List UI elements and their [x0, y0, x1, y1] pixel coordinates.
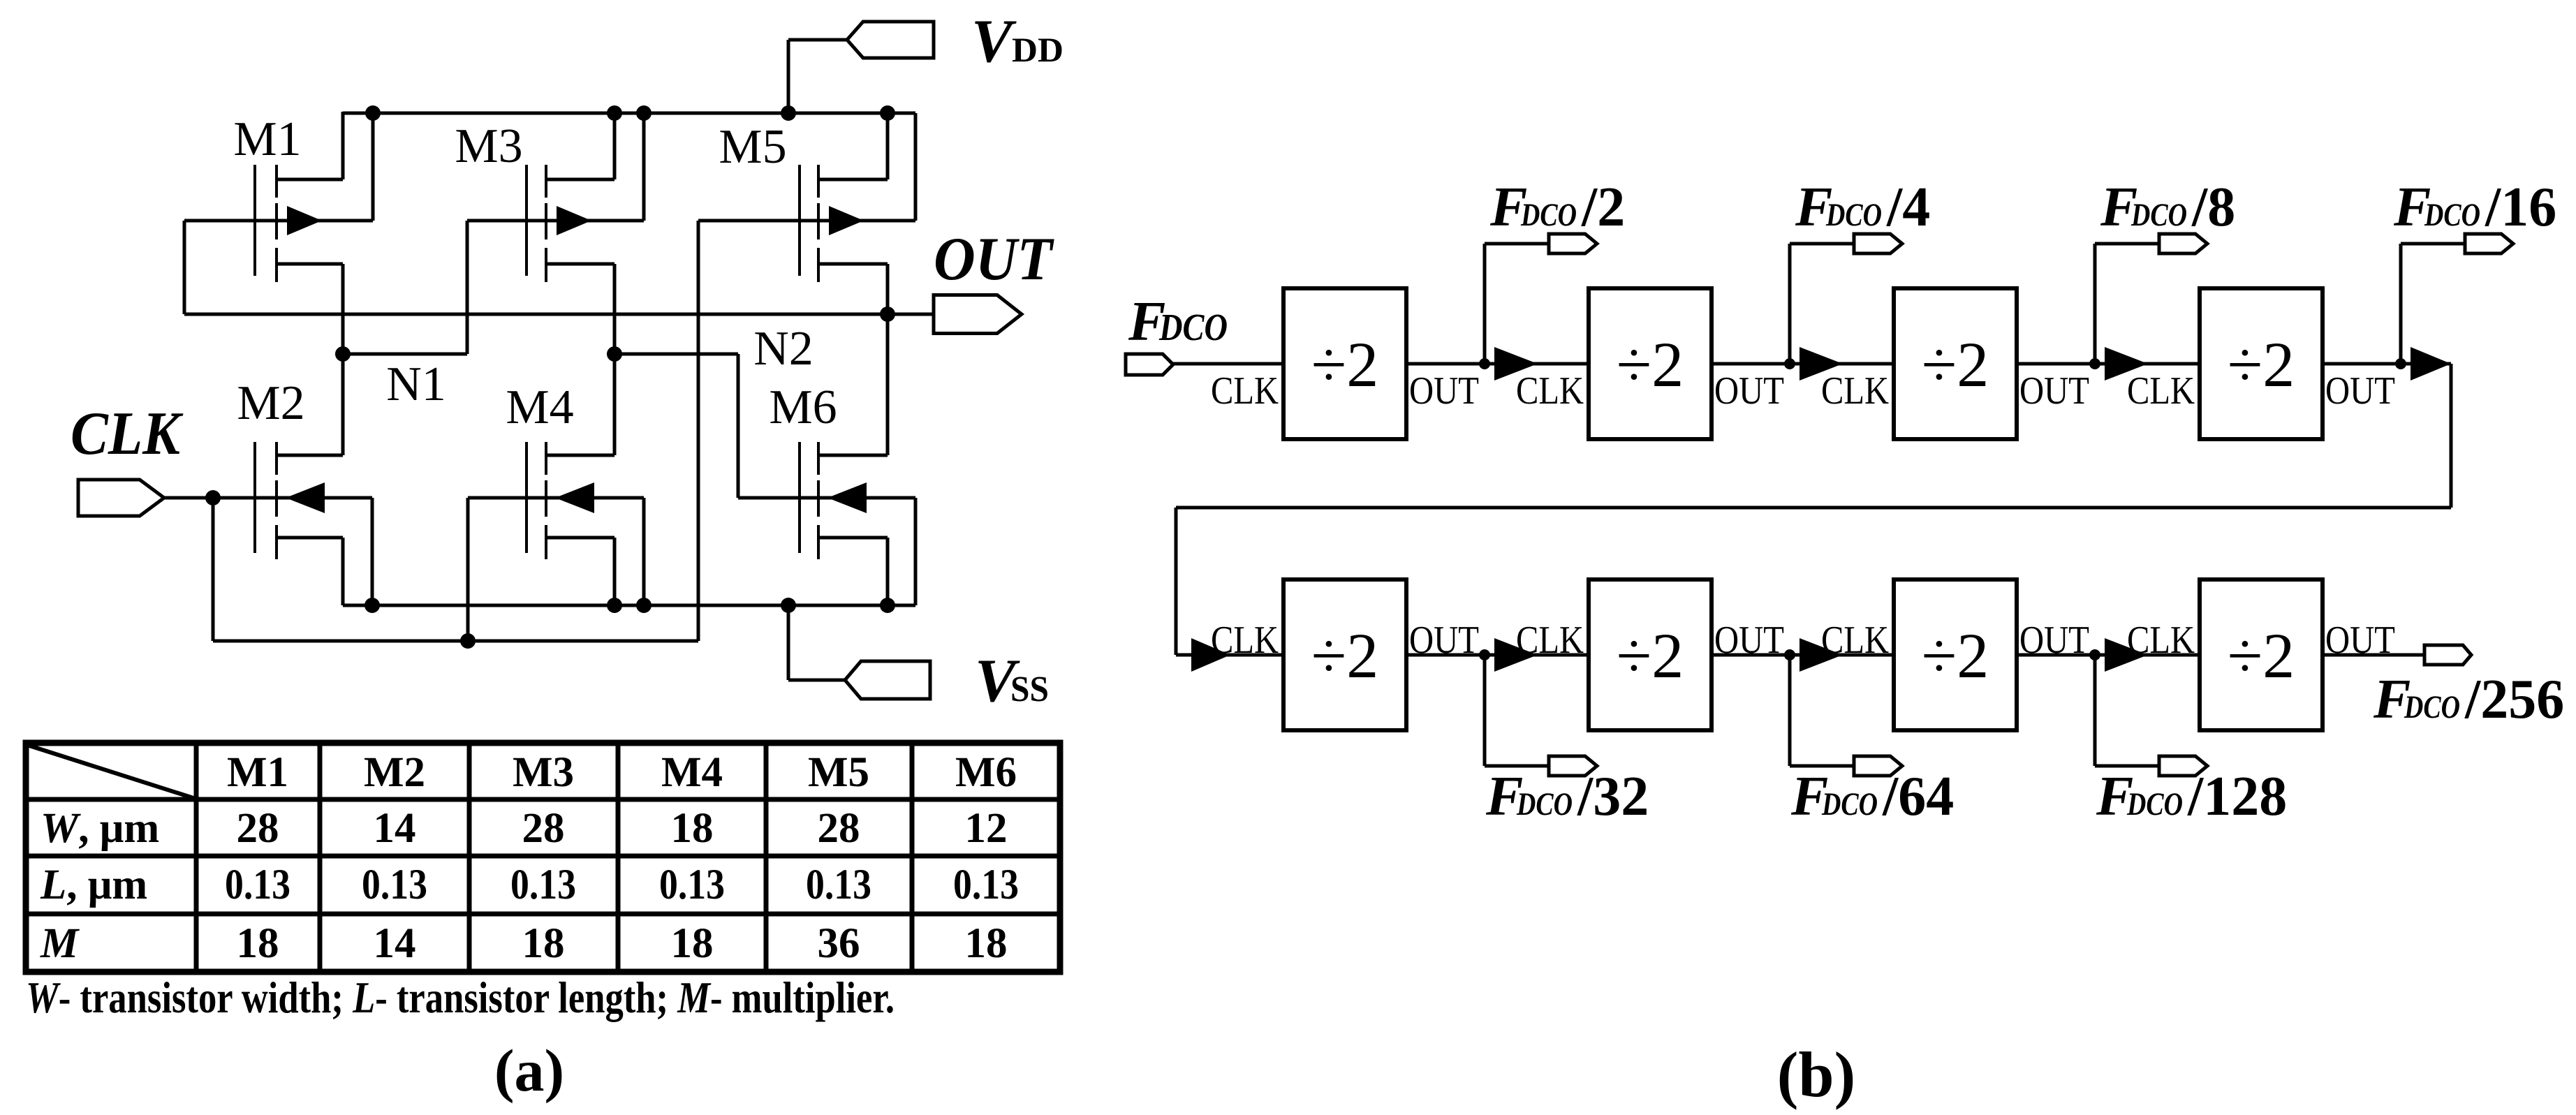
wire M1 bulk riser	[371, 113, 375, 221]
wire VSS lead	[788, 679, 861, 682]
svg-text:(b): (b)	[1777, 1039, 1855, 1110]
wire N2 jog down	[737, 354, 740, 498]
svg-text:CLK: CLK	[1211, 619, 1279, 662]
junction M3 drain on VDD rail	[607, 105, 622, 121]
svg-text:÷2: ÷2	[1311, 620, 1379, 691]
arrow into next CLK after U5	[1494, 638, 1538, 672]
port flag FDCO/128	[2159, 756, 2207, 776]
label FDCO/4	[1795, 177, 1930, 238]
junction tap F/8	[2089, 358, 2100, 369]
wire VDD rail	[343, 112, 915, 115]
wire U2 OUT segment	[1712, 362, 1894, 366]
junction tap F/32	[1479, 649, 1490, 660]
wire M6 bulk drop to VSS rail end	[914, 498, 918, 605]
svg-text:M1: M1	[233, 112, 301, 166]
svg-text:÷2: ÷2	[1617, 620, 1684, 691]
port flag VDD	[847, 22, 934, 58]
divider block U6 (divide-by-2)	[1589, 579, 1712, 730]
junction N1	[335, 346, 351, 362]
wire M2 source drop to VSS	[341, 538, 345, 605]
wire VDD rail end drop to M5 bulk	[914, 113, 918, 221]
wire M6 source drop to VSS	[886, 538, 890, 605]
svg-text:CLK: CLK	[1821, 369, 1889, 413]
svg-text:÷2: ÷2	[1922, 620, 1989, 691]
wire tap drop F/64	[1788, 655, 1792, 766]
transistor M5 (PMOS)	[698, 165, 915, 282]
svg-text:M6: M6	[769, 381, 837, 434]
junction N2	[607, 346, 622, 362]
wire VDD lead	[788, 38, 848, 42]
svg-text:DCO: DCO	[1825, 197, 1882, 233]
svg-text:M6: M6	[955, 749, 1017, 796]
port flag FDCO/16	[2465, 234, 2513, 253]
svg-text:M2: M2	[237, 376, 304, 430]
table column lines	[196, 743, 912, 972]
wire U1 OUT segment	[1406, 362, 1589, 366]
wire M6 drain riser from OUT	[886, 314, 890, 455]
svg-text:(a): (a)	[494, 1037, 564, 1104]
svg-text:÷2: ÷2	[2228, 620, 2295, 691]
svg-text:M4: M4	[661, 749, 723, 796]
wire M3 bulk riser	[642, 113, 646, 221]
wire U5 OUT segment	[1406, 654, 1589, 657]
svg-text:N1: N1	[386, 357, 446, 411]
wire tap riser F/16	[2399, 244, 2403, 364]
svg-text:0.13: 0.13	[362, 862, 427, 908]
wire tap drop F/128	[2093, 655, 2097, 766]
wire M2 drain riser from N1	[341, 354, 345, 455]
port flag FDCO/256	[2424, 645, 2471, 665]
divider block U7 (divide-by-2)	[1894, 579, 2017, 730]
wire tap lead F/128	[2095, 765, 2159, 768]
junction M4 bulk on VSS rail	[636, 598, 652, 613]
junction OUT node	[880, 307, 895, 322]
divider block U5 (divide-by-2)	[1283, 579, 1406, 730]
wire VSS drop	[787, 605, 790, 680]
port flag OUT	[934, 295, 1022, 334]
table row M	[40, 920, 1008, 967]
label FDCO/2	[1489, 177, 1625, 238]
port flag FDCO input	[1126, 354, 1173, 375]
wire CLK drop	[212, 498, 215, 641]
svg-text:/16: /16	[2485, 177, 2556, 238]
svg-text:CLK: CLK	[1211, 369, 1279, 413]
wire U7 OUT segment	[2017, 654, 2200, 657]
svg-text:M3: M3	[455, 119, 522, 173]
wire M3 gate drop to N1	[466, 221, 469, 354]
svg-text:M4: M4	[506, 381, 573, 434]
wire tap lead F/2	[1485, 242, 1549, 246]
junction M1 bulk on VDD rail	[365, 105, 381, 121]
junction VSS tap	[781, 598, 796, 613]
svg-text:M: M	[40, 920, 80, 967]
divider block U2 (divide-by-2)	[1589, 288, 1712, 439]
svg-text:0.13: 0.13	[806, 862, 871, 908]
svg-text:28: 28	[522, 805, 565, 852]
label FDCO/128	[2096, 766, 2287, 827]
svg-text:/32: /32	[1577, 766, 1649, 827]
transistor M6 (NMOS)	[738, 442, 915, 559]
wire feedback drop right	[2450, 364, 2453, 508]
arrow into U5 CLK	[1191, 638, 1230, 672]
junction M5 drain on VDD rail	[880, 105, 895, 121]
transistor M4 (NMOS)	[468, 442, 644, 559]
transistor M3 (PMOS)	[467, 165, 644, 282]
port flag VSS	[845, 661, 930, 699]
port flag FDCO/64	[1854, 756, 1902, 776]
junction VDD on rail	[781, 105, 796, 121]
svg-text:18: 18	[671, 805, 714, 852]
wire tap lead F/64	[1790, 765, 1854, 768]
svg-text:÷2: ÷2	[1617, 329, 1684, 400]
wire M1 source riser to N1	[341, 264, 345, 354]
svg-text:18: 18	[237, 920, 279, 967]
divider block U4 (divide-by-2)	[2200, 288, 2323, 439]
svg-text:14: 14	[374, 805, 416, 852]
label FDCO/32	[1485, 766, 1649, 827]
svg-text:28: 28	[818, 805, 860, 852]
svg-text:DCO: DCO	[1520, 197, 1577, 233]
wire tap drop F/32	[1483, 655, 1487, 766]
arrow into next CLK after U6	[1799, 638, 1843, 672]
svg-text:/4: /4	[1886, 177, 1930, 238]
wire M1 drain riser	[341, 112, 345, 179]
wire N2 to M6 gate	[738, 496, 818, 500]
junction tap F/4	[1784, 358, 1795, 369]
table frame	[26, 743, 1060, 972]
table row L	[40, 862, 1019, 908]
port flag FDCO/8	[2159, 234, 2207, 253]
svg-text:V: V	[971, 8, 1017, 75]
svg-text:OUT: OUT	[1714, 369, 1784, 413]
wire CLK rail	[213, 640, 698, 643]
wire M5 gate drop	[697, 221, 700, 641]
wire tap lead F/16	[2401, 242, 2465, 246]
svg-text:L, μm: L, μm	[40, 862, 147, 908]
wire tap lead F/32	[1485, 765, 1549, 768]
wire M3 drain riser	[613, 113, 617, 179]
transistor M2 (NMOS)	[164, 442, 372, 559]
wire M5 source riser to OUT	[886, 264, 890, 314]
svg-text:28: 28	[237, 805, 279, 852]
port flag FDCO/32	[1549, 756, 1597, 776]
port flag FDCO/4	[1854, 234, 1902, 253]
label FDCO/64	[1790, 766, 1954, 827]
wire FDCO to U1	[1173, 362, 1283, 366]
svg-text:0.13: 0.13	[659, 862, 725, 908]
svg-text:CLK: CLK	[2127, 369, 2195, 413]
svg-text:/64: /64	[1882, 766, 1954, 827]
svg-text:W, μm: W, μm	[41, 805, 159, 852]
svg-text:/256: /256	[2464, 669, 2564, 730]
svg-text:14: 14	[374, 920, 416, 967]
wire U3 OUT segment	[2017, 362, 2200, 366]
svg-text:/128: /128	[2187, 766, 2287, 827]
svg-text:N2: N2	[753, 322, 814, 376]
svg-text:M5: M5	[808, 749, 869, 796]
wire tap riser F/4	[1788, 244, 1792, 364]
arrow into next CLK after U2	[1799, 347, 1843, 381]
table row W	[41, 805, 1008, 852]
svg-text:12: 12	[965, 805, 1008, 852]
junction CLK node	[205, 490, 221, 505]
wire U4 OUT segment	[2323, 362, 2451, 366]
svg-text:/2: /2	[1581, 177, 1625, 238]
svg-text:÷2: ÷2	[1311, 329, 1379, 400]
wire M4 drain riser from N2	[613, 354, 617, 455]
svg-text:M3: M3	[513, 749, 574, 796]
junction M4 gate on CLK rail	[460, 633, 476, 649]
svg-text:0.13: 0.13	[225, 862, 290, 908]
label FDCO/256	[2373, 669, 2564, 730]
junction M2 bulk on VSS rail	[365, 598, 380, 613]
junction tap F/64	[1784, 649, 1795, 660]
svg-text:OUT: OUT	[934, 226, 1054, 293]
wire N2 horizontal	[614, 353, 738, 356]
label FDCO/16	[2393, 177, 2556, 238]
table header row M1-M6	[227, 749, 1017, 796]
wire M4 bulk drop to VSS	[642, 498, 646, 605]
svg-text:OUT: OUT	[1409, 369, 1479, 413]
svg-text:CLK: CLK	[71, 400, 184, 468]
svg-text:36: 36	[818, 920, 860, 967]
svg-text:DCO: DCO	[2130, 197, 2187, 233]
junction tap F/2	[1479, 358, 1490, 369]
svg-text:DCO: DCO	[2126, 786, 2183, 822]
svg-text:OUT: OUT	[2325, 369, 2395, 413]
wire feedback into U5	[1176, 654, 1283, 657]
wire feedback horizontal	[1176, 506, 2451, 510]
wire tap riser F/8	[2093, 244, 2097, 364]
table header diagonal	[29, 746, 193, 798]
svg-text:0.13: 0.13	[510, 862, 576, 908]
wire OUT	[184, 313, 934, 316]
svg-text:W- transistor width; L- transi: W- transistor width; L- transistor lengt…	[26, 973, 895, 1022]
wire M4 source drop to VSS	[613, 538, 617, 605]
svg-text:OUT: OUT	[2019, 369, 2089, 413]
wire tap lead F/8	[2095, 242, 2159, 246]
svg-text:/8: /8	[2191, 177, 2235, 238]
svg-text:÷2: ÷2	[2228, 329, 2295, 400]
svg-text:18: 18	[671, 920, 714, 967]
svg-text:SS: SS	[1010, 670, 1049, 709]
arrow into next CLK after U1	[1494, 347, 1538, 381]
wire tap lead F/4	[1790, 242, 1854, 246]
table row lines	[26, 799, 1060, 914]
svg-text:M2: M2	[364, 749, 425, 796]
transistor M1 (PMOS)	[184, 165, 373, 282]
port flag FDCO/2	[1549, 234, 1597, 253]
junction M4 source on VSS rail	[607, 598, 622, 613]
wire M3 source riser to N2	[613, 264, 617, 354]
wire tap riser F/2	[1483, 244, 1487, 364]
arrow into next CLK after U7	[2105, 638, 2148, 672]
junction M3 bulk on VDD rail	[636, 105, 652, 121]
svg-text:M1: M1	[227, 749, 288, 796]
svg-text:DCO: DCO	[1516, 786, 1573, 822]
arrow into next CLK after U4	[2411, 347, 2451, 381]
svg-text:DCO: DCO	[1158, 306, 1228, 348]
label FDCO/8	[2100, 177, 2235, 238]
wire M1 gate drop to OUT	[183, 221, 186, 314]
wire feedback drop left	[1175, 508, 1178, 655]
svg-text:DCO: DCO	[2424, 197, 2480, 233]
wire M4 gate drop	[466, 498, 470, 641]
wire U8 OUT to FDCO/256	[2323, 654, 2424, 657]
port flag CLK	[78, 480, 164, 516]
svg-text:DCO: DCO	[2404, 689, 2460, 725]
svg-text:0.13: 0.13	[953, 862, 1019, 908]
junction tap F/128	[2089, 649, 2100, 660]
svg-text:M5: M5	[719, 120, 786, 174]
junction M6 source on VSS rail	[880, 598, 895, 613]
svg-text:DCO: DCO	[1821, 786, 1878, 822]
svg-text:CLK: CLK	[1516, 369, 1584, 413]
svg-text:18: 18	[965, 920, 1008, 967]
wire M5 drain riser	[886, 113, 890, 179]
wire VSS rail	[343, 604, 915, 607]
wire U6 OUT segment	[1712, 654, 1894, 657]
svg-text:DD: DD	[1012, 30, 1063, 69]
label FDCO	[1128, 291, 1228, 353]
arrow into next CLK after U3	[2105, 347, 2148, 381]
svg-text:÷2: ÷2	[1922, 329, 1989, 400]
svg-text:18: 18	[522, 920, 565, 967]
wire VDD drop	[787, 40, 790, 113]
wire M2 bulk drop to VSS	[371, 498, 374, 605]
divider block U1 (divide-by-2)	[1283, 288, 1406, 439]
junction tap F/16	[2395, 358, 2406, 369]
divider block U3 (divide-by-2)	[1894, 288, 2017, 439]
divider block U8 (divide-by-2)	[2200, 579, 2323, 730]
wire N1	[343, 353, 467, 356]
